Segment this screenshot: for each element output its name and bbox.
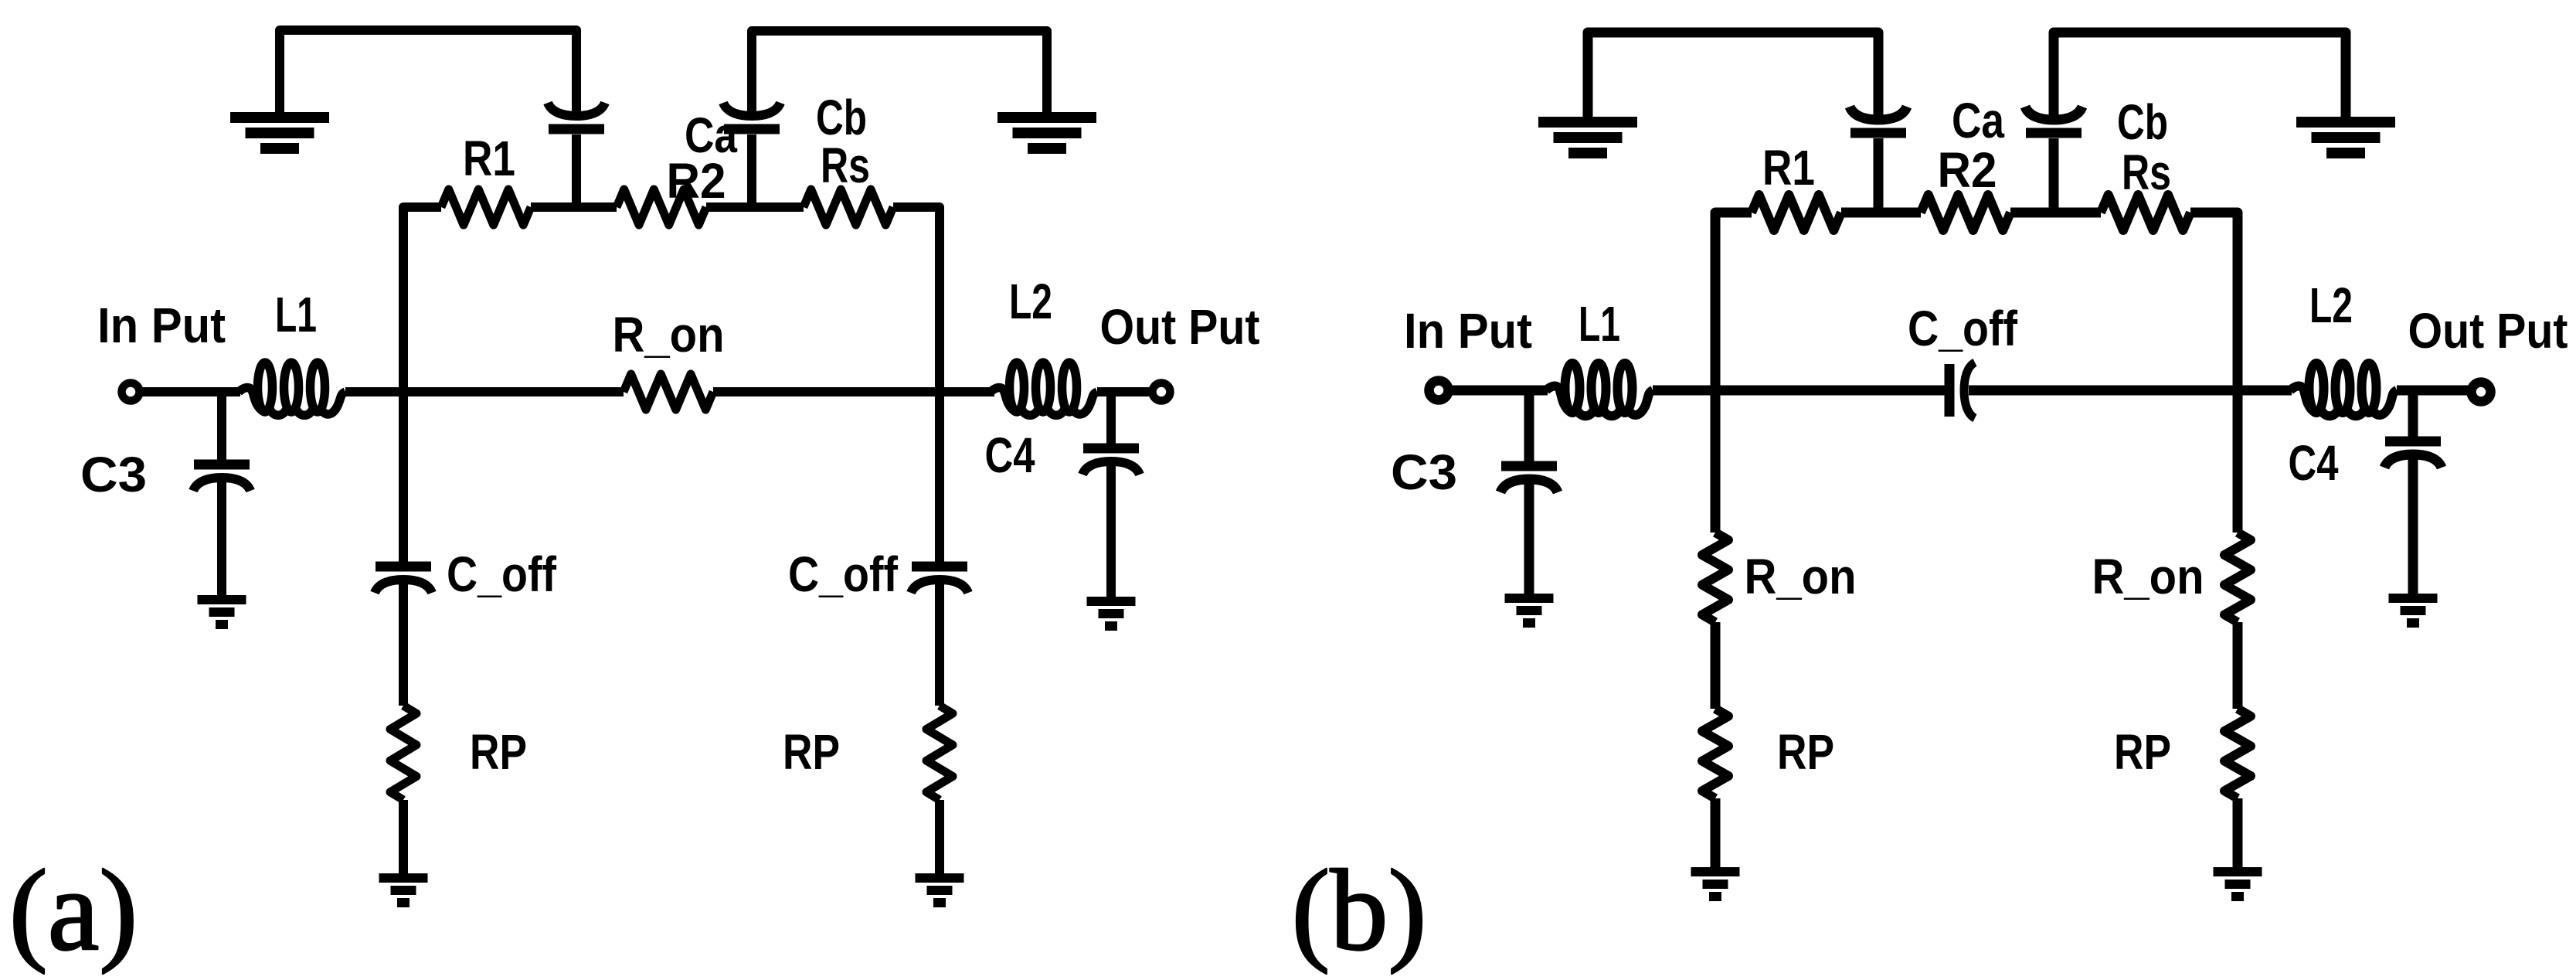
capacitor C_off right (a) bbox=[912, 562, 967, 572]
svg-text:Ca: Ca bbox=[1952, 93, 2004, 148]
wire RP to ground right (a) bbox=[935, 800, 944, 873]
wire C4 to ground (a) bbox=[1106, 461, 1116, 597]
resistor RP left (a) bbox=[390, 706, 416, 800]
port In (b) bbox=[1429, 381, 1449, 400]
wire row right (b) bbox=[2190, 213, 2238, 390]
svg-text:C4: C4 bbox=[2289, 435, 2339, 491]
wire input (a) bbox=[140, 387, 240, 396]
wire row right (a) bbox=[893, 207, 940, 392]
wire L1 to R_on (a) bbox=[345, 387, 624, 396]
wire top rail 2 (a) bbox=[752, 31, 1047, 116]
svg-text:In Put: In Put bbox=[97, 298, 226, 353]
wire node B down (b) bbox=[2233, 390, 2243, 533]
wire R1-R2 (b) bbox=[1841, 208, 1921, 218]
svg-text:L2: L2 bbox=[2309, 277, 2353, 333]
wire R2-Rs (b) bbox=[2010, 208, 2101, 218]
resistor R_on (a) bbox=[624, 374, 713, 410]
wire L1 to C_off (b) bbox=[1653, 386, 1945, 396]
svg-text:C_off: C_off bbox=[447, 546, 557, 602]
svg-text:L2: L2 bbox=[1009, 274, 1052, 329]
ground G5 (a) left shunt bbox=[379, 873, 428, 883]
capacitor C3 (a) bbox=[194, 460, 250, 470]
wire C3 to ground (b) bbox=[1524, 479, 1534, 594]
svg-text:RP: RP bbox=[470, 724, 527, 780]
resistor RP right (b) bbox=[2224, 709, 2251, 798]
svg-text:R2: R2 bbox=[1938, 142, 1997, 198]
svg-text:L1: L1 bbox=[275, 287, 317, 342]
svg-text:RP: RP bbox=[2114, 724, 2171, 780]
resistor R2 (b) bbox=[1921, 195, 2010, 230]
svg-text:C4: C4 bbox=[985, 427, 1035, 483]
wire R_on to RP right (b) bbox=[2233, 622, 2243, 709]
capacitor C_off series (b) bbox=[1945, 364, 1955, 417]
capacitor Cb (b) bbox=[2025, 107, 2082, 120]
svg-text:C_off: C_off bbox=[788, 546, 899, 602]
svg-text:Rs: Rs bbox=[821, 138, 870, 193]
inductor L2 (a) bbox=[1010, 362, 1025, 412]
svg-text:L1: L1 bbox=[1579, 296, 1620, 352]
wire C_off to RP left (a) bbox=[399, 580, 408, 706]
inductor L1 (a) bbox=[258, 362, 273, 412]
ground G4 (b) below C4 bbox=[2389, 594, 2438, 603]
wire R_on to L2 (a) bbox=[713, 387, 994, 396]
port Out (b) bbox=[2472, 383, 2491, 402]
svg-text:R_on: R_on bbox=[2092, 549, 2204, 604]
wire node A down (a) bbox=[399, 392, 408, 563]
wire RP to ground left (b) bbox=[1711, 798, 1721, 867]
ground G1 (a) top-left bbox=[230, 112, 329, 123]
wire node B down (a) bbox=[935, 392, 944, 563]
svg-text:Cb: Cb bbox=[2117, 94, 2168, 150]
resistor R_on right (b) bbox=[2224, 533, 2251, 622]
svg-text:Out Put: Out Put bbox=[1100, 299, 1260, 355]
svg-text:RP: RP bbox=[1777, 724, 1834, 780]
port In (a) bbox=[122, 383, 140, 401]
svg-text:Out Put: Out Put bbox=[2408, 303, 2568, 359]
svg-text:R_on: R_on bbox=[613, 307, 725, 362]
inductor L1 (b) bbox=[1565, 363, 1580, 413]
svg-text:C3: C3 bbox=[80, 447, 147, 502]
wire R1-R2 (a) bbox=[531, 202, 617, 212]
wire L2 to output (b) bbox=[2397, 386, 2472, 396]
svg-text:R1: R1 bbox=[463, 131, 515, 186]
wire top rail 1 (a) bbox=[280, 30, 576, 116]
wire C3 to ground (a) bbox=[217, 478, 226, 595]
ground G6 (a) right shunt bbox=[916, 873, 964, 883]
ground G3 (b) below C3 bbox=[1505, 594, 1554, 603]
wire C_off to node (b) bbox=[1969, 386, 2238, 396]
ground G3 (a) below C3 bbox=[198, 595, 246, 604]
wire C_off to RP right (a) bbox=[935, 580, 944, 706]
wire top rail 2 (b) bbox=[2054, 32, 2346, 120]
ground G5 (b) left shunt bbox=[1691, 867, 1740, 876]
capacitor C4 (a) bbox=[1083, 444, 1139, 454]
wire node to L2 (b) bbox=[2238, 386, 2292, 396]
resistor RP left (b) bbox=[1702, 709, 1728, 798]
port Out (a) bbox=[1153, 383, 1171, 401]
wire to C4 (a) bbox=[1106, 392, 1116, 444]
svg-text:(a): (a) bbox=[9, 846, 138, 975]
ground G2 (b) top-right bbox=[2296, 117, 2395, 128]
svg-text:R_on: R_on bbox=[1745, 549, 1857, 604]
capacitor Ca (a) bbox=[548, 103, 605, 116]
resistor R1 (a) bbox=[441, 189, 531, 225]
ground G4 (a) below C4 bbox=[1087, 597, 1136, 606]
wire to C3 (b) bbox=[1524, 390, 1534, 462]
wire R2-Rs (a) bbox=[706, 202, 804, 212]
wire Cb to node (b) bbox=[2049, 138, 2059, 213]
capacitor C4 (b) bbox=[2385, 437, 2441, 447]
ground G6 (b) right shunt bbox=[2214, 867, 2262, 876]
capacitor Cb (a) bbox=[723, 103, 780, 116]
wire Ca to node (a) bbox=[572, 134, 581, 207]
wire to C3 (a) bbox=[217, 392, 226, 461]
wire R_on to RP left (b) bbox=[1711, 622, 1721, 709]
capacitor C_off left (a) bbox=[376, 562, 431, 572]
ground G2 (a) top-right bbox=[997, 112, 1096, 123]
svg-text:R1: R1 bbox=[1762, 140, 1815, 196]
wire RP to ground left (a) bbox=[399, 800, 408, 873]
capacitor Ca (b) bbox=[1850, 107, 1907, 120]
resistor Rs (a) bbox=[804, 189, 893, 225]
wire Ca to node (b) bbox=[1874, 138, 1884, 213]
resistor R1 (b) bbox=[1752, 195, 1841, 230]
svg-text:RP: RP bbox=[783, 724, 840, 780]
svg-text:C3: C3 bbox=[1391, 444, 1457, 500]
wire node A down (b) bbox=[1711, 390, 1721, 533]
resistor Rs (b) bbox=[2101, 195, 2190, 230]
wire RP to ground right (b) bbox=[2233, 798, 2243, 867]
svg-text:In Put: In Put bbox=[1404, 303, 1532, 359]
resistor R_on left (b) bbox=[1702, 533, 1728, 622]
svg-text:(b): (b) bbox=[1292, 846, 1427, 975]
wire to C4 (b) bbox=[2408, 390, 2418, 437]
wire row left (b) bbox=[1715, 213, 1752, 390]
wire C4 to ground (b) bbox=[2408, 454, 2418, 594]
resistor RP right (a) bbox=[926, 706, 953, 800]
wire Cb to node (a) bbox=[747, 134, 756, 207]
wire L2 to output (a) bbox=[1097, 387, 1152, 396]
wire row left (a) bbox=[403, 207, 441, 392]
svg-text:Rs: Rs bbox=[2122, 145, 2171, 200]
wire input (b) bbox=[1448, 386, 1548, 396]
svg-text:C_off: C_off bbox=[1908, 301, 2018, 356]
svg-text:R2: R2 bbox=[667, 153, 726, 209]
capacitor C3 (b) bbox=[1501, 461, 1557, 471]
ground G1 (b) top-left bbox=[1538, 117, 1637, 128]
wire top rail 1 (b) bbox=[1588, 32, 1878, 119]
inductor L2 (b) bbox=[2309, 363, 2324, 413]
resistor R2 (a) bbox=[617, 189, 706, 225]
